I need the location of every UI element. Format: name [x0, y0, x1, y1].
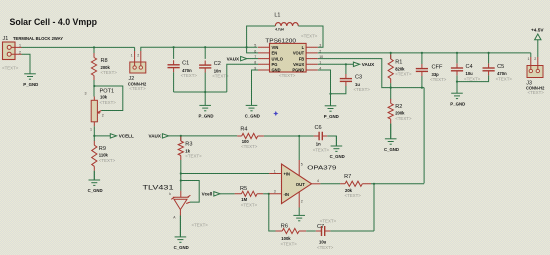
svg-text:200k: 200k	[101, 65, 111, 70]
junction rail/R3	[180, 135, 182, 137]
svg-text:R5: R5	[240, 186, 247, 192]
ground P_GND (C4 C5)	[451, 82, 463, 99]
capacitor C6	[314, 132, 328, 140]
junction VCELL	[93, 135, 95, 137]
capacitor C5	[483, 63, 495, 75]
origin marker	[273, 111, 278, 116]
wire POT1 to VCELL junction	[93, 126, 95, 136]
svg-text:1: 1	[90, 128, 92, 132]
connector J3 CONN-H2	[526, 57, 545, 95]
ground (op-amp V-)	[293, 208, 305, 221]
svg-text:<TEXT>: <TEXT>	[345, 193, 362, 198]
ground C_GND (chip)	[246, 70, 258, 111]
wire J1 pin1 to J2 pin1 (VIN bus left)	[22, 46, 135, 48]
junction VAUX/C3	[345, 63, 347, 65]
svg-text:+4.5V: +4.5V	[531, 27, 544, 32]
ground P_GND (C3)	[325, 94, 337, 111]
svg-text:PG: PG	[272, 62, 278, 67]
potentiometer POT1	[85, 88, 117, 131]
svg-text:VAUX: VAUX	[293, 62, 304, 67]
wire V+ to rail	[298, 136, 300, 160]
svg-text:VCELL: VCELL	[119, 134, 134, 139]
svg-text:<TEXT>: <TEXT>	[395, 116, 412, 121]
resistor R9	[92, 145, 97, 166]
svg-text:1M: 1M	[241, 197, 247, 202]
svg-text:<TEXT>: <TEXT>	[320, 219, 337, 224]
wire VOUT to CFF	[421, 53, 423, 64]
svg-text:VAUX: VAUX	[227, 56, 240, 61]
junction R7/C7	[373, 183, 375, 185]
svg-text:C_GND: C_GND	[174, 245, 189, 250]
power +4.5V	[537, 40, 539, 57]
svg-text:Vcell: Vcell	[202, 192, 213, 197]
svg-text:<TEXT>: <TEXT>	[181, 73, 198, 78]
svg-text:C3: C3	[355, 75, 362, 81]
junction bus/C1	[173, 46, 175, 48]
ground P_GND (C1 C2)	[199, 92, 211, 111]
svg-text:<TEXT>: <TEXT>	[301, 34, 318, 39]
wire L1 right to L pin	[298, 26, 323, 47]
svg-text:4: 4	[317, 179, 319, 183]
svg-text:<TEXT>: <TEXT>	[192, 223, 209, 228]
svg-text:k: k	[169, 192, 171, 196]
svg-text:C_GND: C_GND	[88, 188, 103, 193]
svg-text:C_GND: C_GND	[245, 114, 260, 119]
capacitor C4	[451, 63, 463, 75]
wire C3 to PGND link	[331, 86, 346, 94]
junction VOUT/C4	[456, 52, 458, 54]
svg-text:R1: R1	[395, 60, 402, 66]
svg-text:VOUT: VOUT	[293, 51, 305, 56]
svg-text:VIN: VIN	[272, 45, 279, 50]
svg-text:<TEXT>: <TEXT>	[281, 241, 298, 246]
ground P_GND (J1)	[24, 54, 36, 79]
svg-text:C1: C1	[182, 61, 189, 67]
svg-text:P_GND: P_GND	[199, 114, 214, 119]
svg-text:5: 5	[254, 44, 256, 48]
wire FB node to R2	[390, 88, 392, 100]
wire C2 to ground bus	[204, 73, 206, 93]
resistor R2	[388, 103, 393, 119]
wire bus to C1	[173, 47, 175, 59]
svg-text:TERMINAL BLOCK 2WAY: TERMINAL BLOCK 2WAY	[13, 36, 63, 41]
svg-text:P_GND: P_GND	[450, 101, 465, 106]
wire R3 to TLV431 node	[180, 160, 182, 174]
svg-text:<TEXT>: <TEXT>	[129, 86, 146, 91]
capacitor C3	[340, 74, 352, 86]
wire VOUT to C4	[456, 53, 458, 64]
svg-text:<TEXT>: <TEXT>	[464, 76, 481, 81]
wire L1 left to VIN/EN	[247, 26, 276, 53]
capacitor CFF	[416, 64, 428, 76]
wire PGND pin down	[318, 70, 331, 94]
wire R7 node down to C7	[373, 184, 375, 231]
wire GND pin down	[252, 70, 259, 105]
wire VOUT to C5	[488, 53, 490, 64]
junction ground bus	[204, 91, 206, 93]
svg-text:R8: R8	[101, 58, 108, 64]
resistor R5	[241, 191, 257, 196]
ground C_GND (R9)	[89, 171, 101, 186]
svg-text:3: 3	[85, 92, 87, 96]
svg-text:2: 2	[19, 50, 21, 54]
wire C6 to ground	[327, 136, 336, 146]
svg-text:+IN: +IN	[284, 172, 291, 177]
junction -IN/feedback	[268, 193, 270, 195]
svg-text:-IN: -IN	[284, 192, 290, 197]
svg-text:1: 1	[274, 169, 276, 173]
svg-text:C_GND: C_GND	[330, 154, 345, 159]
svg-text:6: 6	[254, 49, 256, 53]
svg-text:<TEXT>: <TEXT>	[241, 203, 258, 208]
svg-text:VAUX: VAUX	[362, 62, 375, 67]
ground C_GND (C6)	[331, 136, 343, 151]
wire R7 to FB vertical	[371, 183, 424, 185]
junction VIN/L1	[246, 46, 248, 48]
wire TLV431 to ground	[179, 216, 181, 237]
junction C4/C5 gnd	[456, 81, 458, 83]
junction FB/R1/R2	[390, 87, 392, 89]
junction bus/R8	[93, 46, 95, 48]
svg-text:2: 2	[102, 114, 104, 118]
wire C4 down	[456, 75, 458, 93]
svg-text:<TEXT>: <TEXT>	[496, 76, 513, 81]
ground C_GND (TLV431)	[175, 216, 187, 243]
wire OUT to R7	[320, 183, 340, 185]
wire V+ node to C6	[299, 135, 313, 137]
wire Vcell to R5	[220, 193, 235, 195]
wire C7 to R7 node	[330, 230, 374, 232]
junction TLV/+IN	[180, 172, 182, 174]
resistor R7	[345, 181, 362, 186]
svg-text:Solar Cell - 4.0 Vmpp: Solar Cell - 4.0 Vmpp	[10, 17, 98, 27]
svg-text:<TEXT>: <TEXT>	[101, 70, 118, 75]
svg-text:C6: C6	[315, 125, 322, 131]
svg-text:<TEXT>: <TEXT>	[354, 87, 371, 92]
svg-text:L1: L1	[274, 13, 280, 19]
wire FB to divider	[318, 59, 424, 88]
junction VOUT/C5	[488, 52, 490, 54]
wire FB to R7 node (long vertical)	[423, 88, 425, 184]
IC U1 TPS61200	[254, 38, 323, 77]
resistor R3	[178, 141, 183, 156]
node VAUX (rail)	[162, 134, 168, 138]
resistor R6	[282, 228, 299, 233]
junction TLV ref	[180, 179, 182, 181]
wire PG pin to ground bus	[227, 64, 258, 92]
svg-text:<TEXT>: <TEXT>	[395, 72, 412, 77]
svg-text:1: 1	[19, 44, 21, 48]
capacitor C2	[199, 61, 211, 73]
wire R4 to V+ node	[264, 135, 300, 137]
svg-text:5: 5	[301, 162, 303, 166]
svg-text:OUT: OUT	[296, 182, 305, 187]
wire VOUT to R1	[390, 53, 392, 59]
svg-text:R6: R6	[281, 223, 288, 229]
junction VOUT/R1	[390, 52, 392, 54]
svg-text:C5: C5	[497, 64, 504, 70]
junction PGND/C3	[329, 93, 331, 95]
svg-text:<TEXT>: <TEXT>	[430, 77, 447, 82]
wire C5 to C4 ground link	[457, 75, 489, 81]
node Vcell (R5)	[214, 192, 220, 196]
junction bus/C2	[204, 46, 206, 48]
ground C_GND (R2)	[385, 124, 397, 145]
svg-text:C2: C2	[214, 61, 221, 67]
node VAUX (pin1)	[353, 62, 359, 66]
wire bus to C2	[204, 47, 206, 59]
svg-text:1: 1	[528, 57, 530, 61]
capacitor C1	[168, 60, 180, 72]
svg-text:OPA379: OPA379	[307, 166, 336, 172]
svg-text:P_GND: P_GND	[324, 114, 339, 119]
junction POT1 loop	[93, 85, 95, 87]
svg-text:R9: R9	[99, 146, 106, 152]
svg-text:EN: EN	[272, 51, 278, 56]
wire R8 to POT1	[93, 80, 95, 97]
svg-text:10k: 10k	[100, 94, 108, 99]
junction VOUT/CFF	[421, 52, 423, 54]
svg-text:P_GND: P_GND	[23, 82, 38, 87]
svg-text:3: 3	[274, 190, 276, 194]
svg-text:2: 2	[301, 199, 303, 203]
svg-text:UVLO: UVLO	[272, 56, 284, 61]
resistor R1	[388, 59, 393, 79]
svg-text:<TEXT>: <TEXT>	[279, 73, 296, 78]
svg-text:<TEXT>: <TEXT>	[99, 158, 116, 163]
svg-text:R7: R7	[344, 174, 351, 180]
svg-text:10u: 10u	[319, 239, 327, 244]
svg-text:<TEXT>: <TEXT>	[241, 144, 258, 149]
capacitor C7	[316, 226, 331, 236]
wire R2 to ground	[390, 124, 392, 139]
svg-text:3: 3	[319, 44, 321, 48]
connector J2 CONN-H2	[128, 51, 147, 91]
svg-text:1n: 1n	[316, 141, 321, 146]
svg-text:<TEXT>: <TEXT>	[100, 100, 117, 105]
inductor L1	[275, 23, 298, 26]
junction rail/V+	[298, 135, 300, 137]
op-amp U2 OPA379	[269, 160, 336, 208]
wire R1 to FB node	[390, 83, 392, 87]
svg-text:<TEXT>: <TEXT>	[2, 65, 19, 70]
svg-text:<TEXT>: <TEXT>	[528, 90, 545, 95]
wire TLV431 ref loop	[181, 181, 199, 203]
svg-text:<TEXT>: <TEXT>	[185, 154, 202, 159]
svg-text:R3: R3	[185, 142, 192, 148]
svg-text:TLV431: TLV431	[143, 185, 175, 191]
wire VCELL stub	[94, 135, 110, 137]
svg-text:C_GND: C_GND	[384, 147, 399, 152]
wire TLV431 node to +IN	[181, 173, 269, 175]
wire R9 to ground	[93, 171, 95, 180]
svg-text:2: 2	[137, 54, 139, 58]
svg-text:1k: 1k	[185, 148, 190, 153]
svg-text:8: 8	[254, 61, 256, 65]
svg-text:1: 1	[131, 54, 133, 58]
svg-text:J1: J1	[3, 36, 9, 42]
wire R6 to C7	[306, 230, 316, 232]
svg-text:VAUX: VAUX	[148, 134, 161, 139]
junction FB/CFF	[421, 87, 423, 89]
wire VAUX pin1	[318, 63, 354, 65]
svg-text:TPS61200: TPS61200	[265, 38, 296, 44]
resistor R8	[91, 58, 96, 76]
wire rail to R3	[180, 136, 182, 141]
svg-text:4.7uH: 4.7uH	[275, 26, 284, 31]
wire VAUX rail to R4	[169, 135, 238, 137]
node VCELL	[110, 134, 116, 138]
resistor R4	[242, 133, 258, 138]
wire VCELL to R9	[93, 136, 95, 141]
svg-text:C4: C4	[466, 64, 473, 70]
wire VAUX to UVLO pin	[247, 58, 258, 60]
svg-text:200k: 200k	[395, 111, 405, 116]
svg-text:110k: 110k	[99, 153, 109, 158]
svg-text:100k: 100k	[281, 236, 291, 241]
wire J1 pin2 to ground	[22, 54, 31, 74]
wire VOUT bus	[318, 52, 531, 54]
wire into J2 pin1	[134, 47, 136, 51]
wire POT1 wiper loop	[94, 86, 123, 111]
wire input ground bus	[174, 91, 227, 93]
node VAUX (UVLO)	[241, 56, 247, 60]
connector J1 terminal block	[2, 36, 63, 70]
svg-text:FB: FB	[299, 56, 305, 61]
wire J2 pin2 to TPS61200 VIN	[141, 47, 258, 51]
svg-text:R2: R2	[395, 104, 402, 110]
wire VOUT into J3 pin1	[530, 53, 532, 57]
wire C1 to ground bus	[173, 72, 175, 92]
wire bus to R8	[93, 47, 95, 53]
svg-text:R4: R4	[240, 126, 247, 132]
svg-text:C7: C7	[317, 224, 324, 230]
regulator TLV431	[143, 174, 209, 228]
svg-text:<TEXT>: <TEXT>	[317, 245, 334, 250]
svg-text:<TEXT>: <TEXT>	[313, 147, 330, 152]
wire CFF to FB node	[421, 76, 423, 88]
svg-text:820k: 820k	[395, 66, 405, 71]
svg-text:CFF: CFF	[432, 65, 443, 71]
wire -IN to R6	[269, 194, 276, 231]
wire R5 to -IN	[263, 193, 269, 195]
svg-text:2: 2	[534, 57, 536, 61]
wire VAUX to C3	[345, 64, 347, 74]
